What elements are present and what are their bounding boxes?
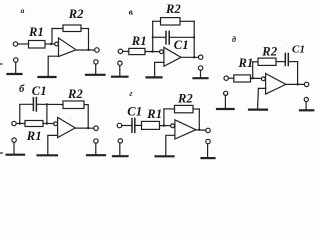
svg-text:R2: R2: [165, 2, 181, 16]
svg-text:R1: R1: [146, 107, 162, 121]
svg-text:R2: R2: [68, 7, 84, 21]
svg-text:C1: C1: [174, 38, 189, 52]
svg-text:C1: C1: [32, 84, 47, 98]
svg-text:г: г: [129, 88, 132, 98]
svg-text:R2: R2: [67, 87, 83, 101]
svg-text:R2: R2: [177, 92, 193, 106]
svg-text:R1: R1: [26, 129, 42, 143]
svg-text:а: а: [21, 6, 25, 15]
svg-text:в: в: [129, 7, 133, 17]
svg-text:C1: C1: [292, 43, 305, 55]
svg-text:б: б: [19, 84, 25, 95]
svg-text:C1: C1: [127, 105, 142, 119]
svg-text:R1: R1: [131, 34, 147, 48]
svg-text:R1: R1: [238, 56, 254, 70]
svg-text:R1: R1: [28, 25, 44, 39]
svg-text:д: д: [232, 35, 236, 44]
